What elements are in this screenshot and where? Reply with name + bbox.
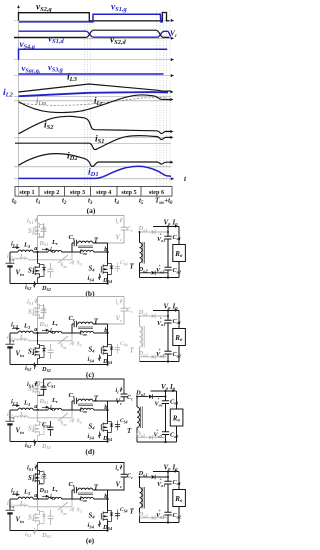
svg-text:+: + <box>160 232 163 237</box>
diode Do1 <box>140 231 152 233</box>
svg-text:(a): (a) <box>87 206 96 215</box>
svg-text:step 4: step 4 <box>96 189 111 196</box>
svg-text:Sac: Sac <box>60 421 67 427</box>
resistor Ro <box>178 472 180 490</box>
svg-text:,off: ,off <box>68 341 75 345</box>
transformer T primary coil <box>78 241 93 243</box>
transformer T secondary coil <box>136 397 138 408</box>
wire secondary bottom rail <box>140 522 180 524</box>
inductor Lm <box>72 332 80 334</box>
resistor Ro <box>176 391 178 409</box>
diode Do1 <box>137 396 149 398</box>
svg-text:step 1: step 1 <box>19 189 34 196</box>
capacitor CS1 <box>43 379 45 387</box>
svg-text:+: + <box>160 477 163 482</box>
node row4 time axis <box>14 75 174 77</box>
wire transformer core lines <box>78 326 93 328</box>
wire timing guide dotted lines t5-t6 cluster <box>156 10 158 186</box>
svg-text:(d): (d) <box>85 447 95 456</box>
transformer T primary coil <box>78 488 93 490</box>
svg-text:T: T <box>130 507 135 515</box>
wire secondary bottom rail <box>140 277 180 279</box>
transistor S4 <box>103 422 107 426</box>
diode Do2 <box>140 272 152 274</box>
switch Sac faded <box>58 502 68 510</box>
capacitor CS2 <box>50 510 52 516</box>
svg-text:L2: L2 <box>19 335 26 341</box>
label iLr arrow <box>42 495 49 497</box>
svg-text:T: T <box>130 262 135 270</box>
node row1 time axis <box>14 20 174 22</box>
svg-text:b: b <box>104 327 107 334</box>
node circuit (e) <box>6 463 186 545</box>
diode DS2 body diode <box>42 268 45 271</box>
node row9 time axis <box>14 166 171 168</box>
diode DS1 body diode <box>42 475 45 478</box>
wire iS1 switch current <box>15 136 171 150</box>
svg-text:S3: S3 <box>77 419 82 425</box>
capacitor Co1 <box>165 391 167 401</box>
svg-text:,off: ,off <box>68 507 75 511</box>
wire iL2 inductor current <box>19 92 169 96</box>
svg-text:Cc: Cc <box>127 308 133 314</box>
svg-text:Sac: Sac <box>60 344 67 350</box>
node row2 time axis <box>14 37 174 39</box>
svg-text:Cc: Cc <box>127 227 133 233</box>
svg-text:+: + <box>12 258 15 264</box>
capacitor Co1 <box>167 472 169 482</box>
wire transformer core lines <box>78 403 93 405</box>
transformer T primary coil <box>78 399 93 401</box>
wire tank branch split <box>71 490 73 499</box>
svg-text:+: + <box>159 347 162 352</box>
label iLr arrow <box>42 406 49 408</box>
svg-text:T: T <box>94 318 99 326</box>
transistor S1 <box>37 470 39 499</box>
transistor S1 <box>37 223 39 252</box>
wire faded phase-2 branch L2 <box>10 340 14 342</box>
wire iD1 diode current <box>19 166 172 178</box>
svg-text:step 2: step 2 <box>44 189 59 196</box>
wire vS1,d drain voltage (blue) <box>19 31 172 37</box>
capacitor CS2 <box>50 263 52 269</box>
svg-text:b: b <box>104 404 107 411</box>
svg-text:Sac: Sac <box>60 510 67 516</box>
inductor Lm <box>72 409 80 411</box>
wire faded phase-2 branch L2 <box>10 506 14 508</box>
node row7 time axis <box>14 137 171 139</box>
node a <box>36 332 38 334</box>
node vertical value axis <box>18 7 20 196</box>
diode DS4 body diode <box>110 424 113 427</box>
transistor S4 <box>103 264 107 268</box>
capacitor Co2 <box>164 351 171 354</box>
capacitor CS4 <box>115 348 120 350</box>
node row8 time axis <box>92 142 171 144</box>
diode Do1 <box>140 476 152 478</box>
svg-text:S3: S3 <box>77 342 82 348</box>
capacitor CS2 <box>50 421 52 427</box>
node output top <box>167 225 169 227</box>
wire vS2,d drain voltage (black) <box>14 30 170 37</box>
wire secondary top rail <box>153 226 179 228</box>
wire vSac,g / vS3,g gate waveform <box>19 73 164 75</box>
node b <box>107 401 109 422</box>
svg-text:Sac: Sac <box>60 263 67 269</box>
node b <box>107 243 109 264</box>
diode DS2 body diode <box>42 515 45 518</box>
label iLr arrow <box>42 248 49 250</box>
svg-text:b: b <box>104 246 107 253</box>
capacitor Cc clamp <box>121 227 128 230</box>
wire iLm magnetizing current dashed <box>20 98 168 106</box>
node row6 time axis <box>14 100 171 102</box>
inductor Lr <box>48 408 62 410</box>
node circuit (b) <box>6 216 186 298</box>
wire secondary core lines <box>142 242 144 264</box>
wire clamp top <box>38 463 125 475</box>
node circuit (c) <box>6 297 186 379</box>
diode Do2 <box>140 356 152 358</box>
node output top <box>167 470 169 472</box>
wire secondary top rail <box>153 310 179 312</box>
wire bottom rail <box>10 364 108 366</box>
wire vS1,g gate waveform <box>19 14 163 22</box>
wire transformer core lines <box>78 245 93 247</box>
transformer T secondary coil <box>139 232 141 243</box>
transistor S1 <box>37 304 39 333</box>
svg-text:b: b <box>104 493 107 500</box>
diode DS4 body diode <box>110 513 113 516</box>
svg-text:step 5: step 5 <box>121 189 136 196</box>
transistor S4 <box>103 345 107 349</box>
svg-text:T: T <box>94 237 99 245</box>
node output top <box>164 390 166 392</box>
node circuit (d) <box>6 379 183 456</box>
capacitor Cc clamp <box>121 394 128 397</box>
svg-text:T: T <box>94 395 99 403</box>
diode Do1 <box>140 315 152 317</box>
inductor L3 <box>10 251 18 253</box>
label iLr arrow <box>42 329 49 331</box>
svg-text:L2: L2 <box>19 254 26 260</box>
capacitor Cr <box>72 400 74 402</box>
transistor S1 <box>37 381 39 410</box>
capacitor CS4 <box>115 514 120 516</box>
resistor Ro <box>178 227 180 245</box>
capacitor Cr <box>72 323 74 325</box>
wire secondary bottom rail <box>137 441 177 443</box>
svg-text:+: + <box>160 316 163 321</box>
transistor S2 <box>37 499 39 511</box>
node b <box>107 490 109 511</box>
wire secondary bottom rail <box>140 361 180 363</box>
capacitor Co2 <box>164 267 171 270</box>
svg-text:Cc: Cc <box>127 395 133 401</box>
inductor Lr <box>48 497 62 499</box>
wire iS2 switch current <box>19 116 171 133</box>
node output top <box>167 309 169 311</box>
node a <box>36 498 38 500</box>
svg-text:T: T <box>127 427 132 435</box>
capacitor Co2 <box>164 512 171 515</box>
diode DS4 body diode <box>110 266 113 269</box>
wire iL3 inductor current triangle <box>19 84 171 92</box>
node step table frame <box>15 187 172 197</box>
diode DS1 body diode <box>42 309 45 312</box>
wire clamp top <box>44 379 125 394</box>
transistor S2 <box>37 410 39 422</box>
battery Vin <box>9 410 11 421</box>
capacitor Cc clamp <box>121 308 128 311</box>
svg-text:+: + <box>12 416 15 422</box>
diode DS2 body diode <box>42 349 45 352</box>
inductor L3 <box>10 409 18 411</box>
transformer T primary coil <box>78 322 93 324</box>
capacitor Co1 <box>167 227 169 237</box>
capacitor CS1 <box>43 223 45 229</box>
diode DS4 body diode <box>110 347 113 350</box>
wire secondary core lines <box>139 407 141 429</box>
wire vS2,g gate waveform <box>19 13 170 21</box>
inductor Lm <box>72 498 80 500</box>
inductor Lm <box>72 251 80 253</box>
svg-text:S3: S3 <box>77 508 82 514</box>
switch Sac faded <box>58 255 68 263</box>
svg-text:step 6: step 6 <box>149 189 164 196</box>
diode DS1 body diode <box>42 228 45 231</box>
svg-text:S3: S3 <box>77 261 82 267</box>
capacitor Co2 <box>162 432 169 435</box>
svg-text:+: + <box>12 505 15 511</box>
battery Vin <box>9 252 11 263</box>
wire bottom rail <box>10 530 108 532</box>
inductor L3 <box>10 498 18 500</box>
transistor S4 <box>103 511 107 515</box>
capacitor CS4 <box>115 425 120 427</box>
svg-text:step 3: step 3 <box>70 189 85 196</box>
wire tank branch split <box>71 243 73 252</box>
wire iLr resonant inductor current <box>19 95 171 113</box>
svg-text:T: T <box>94 484 99 492</box>
svg-text:+: + <box>159 508 162 513</box>
wire tank branch split <box>71 401 73 410</box>
diode Do2 <box>140 517 152 519</box>
node row3 time axis <box>14 59 174 61</box>
svg-text:(c): (c) <box>86 370 95 379</box>
svg-text:(e): (e) <box>86 536 95 545</box>
capacitor Cr <box>72 489 74 491</box>
svg-text:+: + <box>12 339 15 345</box>
wire faded phase-2 branch L2 <box>10 417 14 419</box>
wire timing guide dotted lines t3 cluster <box>84 24 86 186</box>
svg-text:+: + <box>159 263 162 268</box>
svg-text:+: + <box>156 427 159 432</box>
transistor S2 <box>37 252 39 264</box>
wire secondary core lines <box>142 487 144 509</box>
capacitor CS2 <box>50 344 52 350</box>
svg-text:T: T <box>130 346 135 354</box>
switch Sac faded <box>58 336 68 344</box>
node row10 time axis <box>14 178 174 180</box>
wire secondary core lines <box>142 326 144 348</box>
resistor Ro <box>178 311 180 329</box>
wire tank branch split <box>71 324 73 333</box>
wire bottom rail <box>10 441 108 443</box>
transformer T secondary coil <box>139 477 141 488</box>
node a <box>36 409 38 411</box>
capacitor Cr <box>72 242 74 244</box>
wire iD2 diode current <box>19 154 171 167</box>
svg-text:+: + <box>157 396 160 401</box>
wire bottom rail <box>10 283 108 285</box>
wire vS4,g gate waveform <box>19 49 168 59</box>
wire transformer core lines <box>78 492 93 494</box>
diode Do2 <box>137 436 149 438</box>
transformer T secondary coil <box>139 316 141 327</box>
battery Vin <box>9 333 11 344</box>
svg-text:,off: ,off <box>68 418 75 422</box>
capacitor CS1 <box>43 304 45 310</box>
svg-text:,off: ,off <box>68 260 75 264</box>
capacitor CS1 <box>43 470 45 476</box>
node row5 time axis <box>14 96 171 98</box>
diode DS2 body diode <box>42 426 45 429</box>
node b <box>107 324 109 345</box>
capacitor Cc clamp <box>121 474 128 477</box>
wire table cell separators <box>38 187 40 197</box>
diode DS1 body diode <box>42 386 45 389</box>
transistor S2 <box>37 333 39 345</box>
wire secondary top rail <box>151 390 177 392</box>
wire clamp top <box>38 216 125 228</box>
svg-text:Cc: Cc <box>127 474 133 480</box>
svg-text:L2: L2 <box>19 501 26 507</box>
inductor Lr <box>48 331 62 333</box>
capacitor Co1 <box>167 311 169 321</box>
wire secondary top rail <box>153 471 179 473</box>
battery Vin <box>9 499 11 510</box>
wire clamp top <box>38 297 125 309</box>
capacitor CS4 <box>115 267 120 269</box>
node a <box>36 251 38 253</box>
inductor Lr <box>48 250 62 252</box>
inductor L3 <box>10 332 18 334</box>
wire faded phase-2 branch L2 <box>10 259 14 261</box>
svg-text:L2: L2 <box>19 412 26 418</box>
switch Sac faded <box>58 413 68 421</box>
